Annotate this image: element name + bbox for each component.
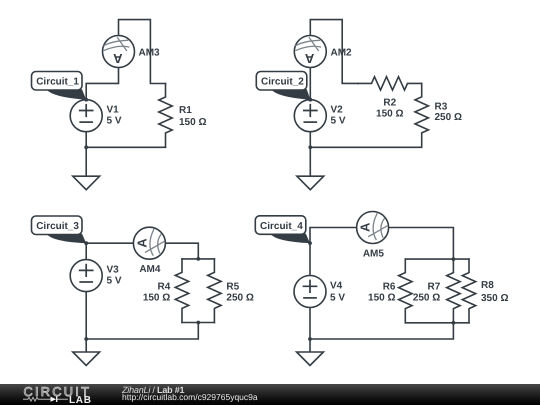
- node flag Circuit_3: [32, 216, 89, 245]
- wire V1 bottom to ground: [85, 132, 87, 177]
- ammeter AM2: [294, 36, 326, 68]
- svg-text:5 V: 5 V: [331, 116, 346, 127]
- svg-text:Circuit_4: Circuit_4: [260, 221, 303, 232]
- junction node (circuit 1 bottom): [84, 145, 88, 149]
- svg-text:AM4: AM4: [139, 264, 161, 275]
- node flag Circuit_2: [256, 72, 312, 102]
- svg-text:250 Ω: 250 Ω: [226, 292, 253, 303]
- svg-text:5 V: 5 V: [107, 116, 122, 127]
- resistor R7: [447, 259, 460, 323]
- ground (circuit 4): [297, 352, 324, 366]
- junction node (circuit 4 bottom-left): [308, 337, 312, 341]
- wire node up and right to AM5 left: [310, 228, 357, 244]
- resistor R2: [358, 77, 422, 90]
- voltage source V4: [294, 276, 326, 308]
- svg-text:R3: R3: [435, 101, 448, 112]
- resistor R5: [208, 259, 221, 323]
- resistor R4: [175, 259, 188, 323]
- svg-text:5 V: 5 V: [330, 293, 345, 304]
- ground (circuit 3): [73, 352, 100, 366]
- voltage source V2: [294, 100, 326, 132]
- ammeter AM3: [103, 36, 135, 68]
- svg-text:Circuit_3: Circuit_3: [36, 221, 79, 232]
- ground (circuit 1): [73, 176, 100, 190]
- wire R1 bottom to V1 bottom node: [86, 146, 165, 148]
- svg-text:V1: V1: [107, 105, 120, 116]
- wire V4 bottom to ground: [309, 308, 311, 353]
- junction node (parallel bottom, circuit 4): [452, 321, 456, 325]
- svg-text:250 Ω: 250 Ω: [435, 112, 462, 123]
- resistor R3: [415, 83, 428, 147]
- wire AM5 right to parallel top bar: [389, 228, 454, 260]
- ground (circuit 2): [297, 176, 324, 190]
- node flag Circuit_1: [32, 72, 89, 102]
- svg-text:R5: R5: [226, 281, 239, 292]
- svg-text:R2: R2: [383, 97, 396, 108]
- junction node (parallel top, circuit 4): [452, 257, 456, 261]
- wire V2 bottom to ground: [309, 132, 311, 177]
- node flag Circuit_4: [255, 216, 312, 245]
- wire node to AM4 left: [86, 242, 133, 244]
- svg-text:150 Ω: 150 Ω: [376, 109, 403, 120]
- voltage source V1: [70, 100, 102, 132]
- ammeter AM5: [357, 212, 389, 244]
- CircuitLab logo word: [23, 386, 98, 400]
- svg-text:R4: R4: [158, 281, 171, 292]
- wire V1 top to AM3 bottom: [86, 68, 118, 100]
- wire bottom bar to V3 bottom node: [86, 323, 198, 340]
- svg-text:150 Ω: 150 Ω: [368, 292, 395, 303]
- svg-text:150 Ω: 150 Ω: [143, 292, 170, 303]
- resistor R1: [159, 84, 172, 148]
- junction node (parallel top, circuit 3): [196, 257, 200, 261]
- svg-text:5 V: 5 V: [107, 276, 122, 287]
- resistor R8: [462, 259, 475, 323]
- wire V2 top to AM2 bottom: [309, 68, 311, 100]
- wire node down to V4 top: [309, 243, 311, 275]
- parallel top bar (circuit 4): [405, 258, 469, 260]
- footer bar: [0, 384, 540, 405]
- wire R3 bottom to V2 bottom node: [310, 146, 421, 148]
- footer meta line 1: [122, 386, 184, 395]
- junction node (circuit 3 bottom-left): [84, 337, 88, 341]
- resistor R6: [399, 259, 412, 323]
- parallel bottom bar (circuit 3): [182, 322, 214, 324]
- svg-text:V2: V2: [331, 105, 344, 116]
- svg-text:150 Ω: 150 Ω: [179, 117, 206, 128]
- svg-text:R7: R7: [428, 281, 441, 292]
- junction node (circuit 2 bottom): [308, 145, 312, 149]
- svg-text:R6: R6: [383, 281, 396, 292]
- wire AM4 right to parallel top bar: [165, 243, 198, 259]
- wire AM3 top to R1 top: [119, 20, 166, 84]
- svg-text:250 Ω: 250 Ω: [413, 292, 440, 303]
- svg-text:V3: V3: [107, 265, 120, 276]
- wire node down to V3 top: [85, 243, 87, 259]
- junction node (parallel bottom, circuit 3): [196, 321, 200, 325]
- footer meta line 2: [122, 393, 258, 402]
- svg-text:AM5: AM5: [363, 249, 385, 260]
- svg-text:Circuit_2: Circuit_2: [261, 77, 304, 88]
- parallel bottom bar (circuit 4): [405, 322, 469, 324]
- CircuitLab logo LAB: [69, 396, 92, 405]
- wire bottom bar to V4 bottom node: [310, 323, 453, 339]
- CircuitLab logo schematic squiggle: [23, 396, 69, 404]
- svg-text:R1: R1: [179, 105, 192, 116]
- svg-text:350 Ω: 350 Ω: [481, 293, 508, 304]
- voltage source V3: [70, 260, 102, 292]
- parallel top bar (circuit 3): [182, 258, 214, 260]
- svg-text:V4: V4: [330, 281, 343, 292]
- svg-text:R8: R8: [481, 280, 494, 291]
- wire V3 bottom to ground: [85, 292, 87, 352]
- svg-text:Circuit_1: Circuit_1: [36, 77, 79, 88]
- svg-text:AM3: AM3: [139, 48, 161, 59]
- wire AM2 top to R2 left: [310, 20, 358, 84]
- ammeter AM4: [133, 227, 165, 259]
- svg-text:AM2: AM2: [331, 48, 353, 59]
